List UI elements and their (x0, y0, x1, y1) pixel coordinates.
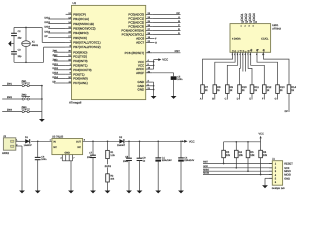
net label ZAS1 divider tap (105, 165, 112, 168)
svg-text:C: C (178, 24, 180, 27)
display digit pins with DIG net labels (240, 13, 258, 27)
svg-text:DIG4: DIG4 (45, 30, 51, 33)
svg-text:4MHz: 4MHz (32, 44, 39, 47)
svg-text:100n: 100n (87, 156, 93, 159)
resistor R13 (276, 85, 285, 94)
svg-text:DIG1: DIG1 (45, 16, 51, 19)
svg-text:ZW3: ZW3 (53, 58, 59, 61)
MCU port D pins PD0-PD7 (66, 50, 92, 85)
resistor R1 divider top (106, 140, 116, 164)
wire ARK2 pin2 to ground (21, 146, 23, 191)
svg-text:D: D (237, 97, 239, 100)
wire colon pins (243, 56, 246, 72)
wire and net label below R10 (237, 93, 240, 100)
ground below R2 (105, 191, 111, 194)
svg-text:ATmega8: ATmega8 (69, 101, 82, 105)
svg-text:6: 6 (245, 53, 246, 56)
svg-text:ZW3: ZW3 (7, 109, 13, 112)
wire ISP bus RST (203, 161, 272, 164)
svg-text:ZW2: ZW2 (53, 54, 59, 57)
wires and net labels on ADC6 ADC7 (152, 37, 157, 44)
svg-text:10k: 10k (226, 154, 231, 157)
connector Z2 ARK2 (2, 135, 22, 155)
ground below MCU (151, 96, 157, 99)
wire display pin to resistor R8 (215, 56, 235, 85)
svg-text:U2: U2 (73, 2, 77, 5)
resistor R14 (287, 85, 296, 94)
ground below C7 (90, 191, 96, 194)
svg-text:DP: DP (285, 110, 289, 113)
svg-text:AF5643: AF5643 (272, 27, 281, 30)
svg-text:PD0(RXD): PD0(RXD) (73, 50, 87, 54)
wire display pin to resistor R10 (239, 56, 242, 85)
svg-text:PD4(XCK/T0): PD4(XCK/T0) (73, 68, 91, 72)
wire ISP bus SCK (203, 165, 272, 168)
svg-text:U3 78L05: U3 78L05 (52, 135, 64, 138)
MCU ground pins GND GND GND (138, 80, 153, 92)
MCU port C pins PC0-PC5, ADC6, ADC7 (121, 12, 152, 45)
capacitor C6 100n input (35, 140, 47, 190)
svg-text:PD2(INT0): PD2(INT0) (73, 59, 87, 63)
resistor R12 (263, 85, 272, 94)
capacitor C7 100n after regulator (87, 140, 96, 190)
capacitor C5 on AREF (152, 73, 183, 96)
capacitor C9 1u (137, 140, 147, 190)
wire display pin to resistor R14 (264, 56, 290, 85)
svg-text:7: 7 (73, 156, 74, 159)
wire display pin to resistor R13 (257, 56, 278, 85)
wire switch common bus (41, 85, 43, 119)
svg-text:PB1(OC1A): PB1(OC1A) (73, 17, 89, 21)
wire and net label below R12 (262, 93, 264, 100)
ground below ARK2 (19, 191, 25, 194)
resistor R5 10k pull-up (246, 150, 255, 172)
svg-text:ZW1: ZW1 (22, 80, 28, 83)
svg-text:MISO: MISO (203, 168, 209, 171)
svg-text:GND: GND (138, 88, 146, 92)
svg-text:220u/16V: 220u/16V (184, 159, 194, 162)
svg-text:PD3(INT1): PD3(INT1) (73, 64, 87, 68)
IC U2 ATmega8 body (72, 2, 146, 99)
svg-text:10k: 10k (263, 154, 268, 157)
capacitor C3 (11, 44, 22, 63)
svg-text:G: G (275, 97, 277, 100)
svg-text:PD7(AIN1): PD7(AIN1) (73, 81, 88, 85)
wire RST from PC6 (152, 50, 180, 53)
wires and net labels on PC0-PC5 (segment nets) (152, 12, 180, 35)
svg-text:DIG3: DIG3 (45, 26, 51, 29)
ground below C8 (126, 191, 132, 194)
svg-text:MOSI: MOSI (203, 172, 209, 175)
wire ISP GND pin to ground (265, 178, 272, 185)
regulator ground pins (60, 155, 74, 191)
svg-text:10: 10 (262, 53, 264, 56)
svg-text:PD6(AIN0): PD6(AIN0) (73, 77, 88, 81)
MCU port B pins PB0-PB7 (66, 12, 101, 49)
svg-text:ZW2: ZW2 (7, 96, 13, 99)
wire display pin to resistor R11 (248, 56, 252, 85)
wire and net label below R9 (225, 93, 228, 100)
svg-text:4 DIG/A: 4 DIG/A (232, 38, 241, 41)
wire and net label below R11 (249, 93, 252, 100)
switch ZW3 (2, 106, 42, 113)
svg-text:PB6(XTAL1/TOSC1): PB6(XTAL1/TOSC1) (73, 40, 100, 44)
wire main 5V rail (83, 140, 185, 142)
svg-text:SCK: SCK (203, 165, 208, 168)
wire ISP bus MISO (203, 168, 272, 171)
svg-text:DIG3: DIG3 (53, 72, 59, 75)
svg-text:IN: IN (53, 140, 56, 143)
VCC supply connection of MCU (152, 58, 168, 69)
svg-text:ARK2: ARK2 (2, 152, 10, 155)
wires and net labels on PD0-PD7 (53, 50, 66, 84)
wire XTAL top rail (14, 28, 66, 43)
svg-text:G: G (155, 41, 157, 44)
ground below C4 (178, 191, 184, 194)
ground below C1 (155, 191, 161, 194)
label goldpin (272, 187, 285, 190)
svg-text:100n: 100n (123, 160, 129, 163)
svg-text:1: 1 (232, 53, 233, 56)
svg-text:CC/CL: CC/CL (261, 38, 269, 41)
svg-text:DIG4: DIG4 (252, 13, 256, 21)
svg-text:9: 9 (256, 53, 257, 56)
svg-text:GND: GND (284, 177, 290, 180)
switch ZW2 (2, 94, 42, 101)
resistor R4 10k pull-up (235, 150, 244, 168)
IC LED1 4-digit display body (230, 24, 282, 53)
svg-text:PD5(T1): PD5(T1) (73, 72, 84, 76)
ground at crystal caps (8, 41, 14, 47)
svg-text:ZW3: ZW3 (22, 106, 28, 109)
svg-text:DIG2: DIG2 (45, 21, 51, 24)
MCU ground net (152, 82, 154, 96)
svg-text:7: 7 (247, 53, 248, 56)
crystal X1 (22, 27, 39, 64)
svg-text:ADC7: ADC7 (136, 41, 144, 45)
svg-text:PB3(MOSI/OC2): PB3(MOSI/OC2) (73, 26, 95, 30)
svg-text:DP: DP (53, 80, 57, 83)
svg-text:3: 3 (237, 53, 238, 56)
svg-text:1N4007: 1N4007 (24, 144, 33, 147)
svg-text:NC: NC (53, 146, 57, 149)
svg-text:MOSI: MOSI (284, 174, 291, 177)
ground below C5 (171, 96, 177, 99)
connector Z1 ISP header (269, 158, 293, 186)
diode D2 (117, 136, 126, 147)
capacitor C2 (11, 28, 22, 44)
svg-text:DP: DP (176, 12, 180, 15)
MCU PC6/RESET pin (125, 50, 153, 55)
svg-text:PB4(MISO): PB4(MISO) (73, 31, 88, 35)
MCU power pins VCC VCC AVCC AREF (136, 59, 152, 75)
svg-text:D: D (178, 28, 180, 31)
svg-text:PB0(ICP): PB0(ICP) (73, 12, 86, 16)
wire and net label below R7 (200, 93, 203, 100)
resistor R7 (201, 85, 209, 94)
resistor R3 10k pull-up (222, 150, 231, 164)
svg-text:VCC: VCC (259, 133, 264, 136)
IC U3 78L05 regulator (50, 135, 86, 154)
svg-text:VCC: VCC (162, 58, 168, 62)
VCC arrow at rail end (182, 140, 195, 144)
svg-text:VCC: VCC (189, 140, 195, 143)
svg-text:5: 5 (242, 53, 243, 56)
svg-text:DIG2: DIG2 (53, 67, 59, 70)
capacitor C4 220u electrolytic (178, 140, 194, 190)
svg-text:GND: GND (65, 152, 71, 155)
ground below C9 (137, 191, 143, 194)
capacitor C8 100n (123, 140, 132, 190)
resistor R2 divider bottom (106, 167, 115, 190)
svg-text:10k: 10k (239, 154, 244, 157)
svg-text:ZW2: ZW2 (22, 94, 28, 97)
svg-text:2: 2 (60, 156, 61, 159)
wire ISP pull-up rail (224, 141, 261, 150)
resistor R11 (250, 85, 259, 94)
svg-text:220u/16V: 220u/16V (162, 159, 172, 162)
svg-text:PB7(XTAL2/TOSC2): PB7(XTAL2/TOSC2) (73, 45, 100, 49)
display segment pins (232, 48, 266, 56)
svg-text:NC: NC (78, 146, 82, 149)
wire ISP bus MOSI (203, 172, 272, 175)
svg-text:2: 2 (234, 53, 235, 56)
resistor R9 (226, 85, 234, 94)
wire and net label below R13 (275, 93, 278, 100)
svg-text:C: C (225, 97, 227, 100)
wire and net label below R14 (285, 93, 289, 112)
resistor R8 (213, 85, 221, 94)
svg-text:DIG1: DIG1 (53, 63, 59, 66)
svg-text:PB5(SCK): PB5(SCK) (73, 36, 87, 40)
ground below C6 (35, 191, 41, 194)
diode D1 (20, 136, 52, 147)
svg-text:RST: RST (175, 50, 181, 53)
svg-text:DIG4: DIG4 (53, 76, 59, 79)
svg-text:PC6 (/RESET): PC6 (/RESET) (125, 51, 145, 55)
ground below regulator (68, 191, 74, 194)
svg-text:4: 4 (239, 53, 240, 56)
switch ZW1 (2, 80, 42, 87)
wire display pin to resistor R12 (251, 56, 265, 85)
svg-text:PD1(TXD): PD1(TXD) (73, 55, 87, 59)
wires and net labels on PB1-PB5 (digit drive nets) (45, 16, 66, 38)
svg-text:Goldpin 1x6: Goldpin 1x6 (272, 187, 285, 190)
svg-text:ZW1: ZW1 (7, 83, 13, 86)
label ATmega8 (69, 101, 82, 105)
svg-text:10k: 10k (250, 154, 255, 157)
wire display pin to resistor R9 (227, 56, 237, 85)
svg-text:ZW1: ZW1 (53, 50, 59, 53)
wire XTAL bottom rail (14, 47, 66, 62)
svg-text:100n: 100n (41, 158, 47, 161)
svg-text:100n: 100n (177, 78, 183, 81)
ground below ISP (262, 185, 268, 188)
resistor R10 (238, 85, 247, 94)
capacitor C1 220u electrolytic (155, 140, 172, 190)
svg-text:RESET: RESET (284, 163, 293, 166)
svg-text:PB2(SS/OC1B): PB2(SS/OC1B) (73, 22, 94, 26)
VCC arrow ISP (259, 133, 264, 142)
svg-text:OUT: OUT (76, 140, 82, 143)
ground below switches (39, 119, 45, 122)
svg-text:RST: RST (203, 161, 208, 164)
svg-text:DP: DP (45, 35, 49, 38)
svg-text:ZAS1: ZAS1 (105, 165, 112, 168)
resistor R6 10k pull-up (259, 150, 268, 175)
wire and net label below R8 (212, 93, 215, 100)
svg-text:AREF: AREF (136, 71, 144, 75)
svg-text:8: 8 (250, 53, 251, 56)
wire display pin to resistor R7 (203, 56, 233, 85)
svg-text:1N4007: 1N4007 (117, 144, 126, 147)
